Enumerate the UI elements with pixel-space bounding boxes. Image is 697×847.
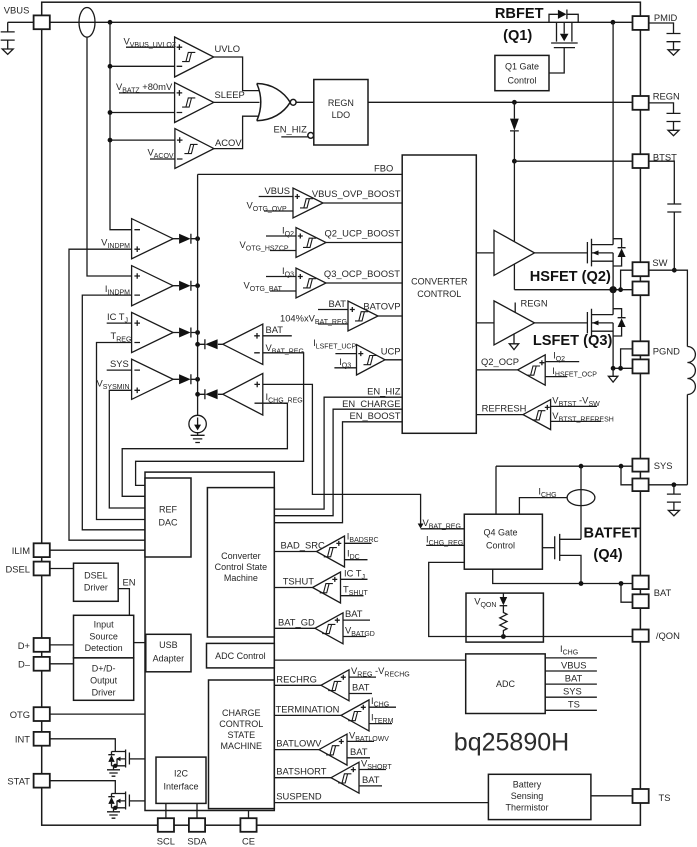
wire /QON net	[429, 562, 633, 636]
block ADC	[466, 654, 546, 714]
svg-text:BAT: BAT	[266, 324, 284, 335]
op-amp thermal IC TJ / T_REG	[107, 311, 173, 353]
block Battery Sensing Thermistor	[488, 774, 591, 819]
wire PGND node	[613, 367, 632, 369]
pin SYS 1	[632, 459, 648, 472]
svg-text:EN_CHARGE: EN_CHARGE	[342, 398, 400, 409]
transistor Q1 RBFET	[549, 10, 578, 74]
svg-text:Control State: Control State	[215, 562, 268, 572]
svg-text:D+/D-: D+/D-	[92, 664, 116, 674]
wire LSFET gate	[535, 322, 588, 324]
comparator RECHRG	[274, 665, 409, 701]
svg-text:STATE: STATE	[227, 730, 255, 740]
svg-text:Q2_UCP_BOOST: Q2_UCP_BOOST	[324, 227, 400, 238]
resistor R1 QON pulldown	[500, 606, 507, 637]
capacitor BTST bootstrap cap	[649, 161, 682, 270]
capacitor REGN external cap	[649, 103, 681, 130]
wire VBUS input net	[8, 21, 633, 23]
svg-text:REF: REF	[159, 505, 178, 515]
comparator BATSHORT	[274, 758, 392, 794]
pin BAT 2	[633, 594, 649, 608]
wire I_CHG_REG- reference wrap to REF DAC	[122, 403, 287, 496]
svg-text:BATLOWV: BATLOWV	[276, 738, 322, 749]
wire D+ input	[50, 644, 74, 646]
wire I_CHG sense into Q4 Gate Control	[519, 498, 567, 515]
svg-text:Output: Output	[90, 676, 118, 686]
block D+/D- Output Driver	[74, 658, 134, 700]
svg-text:EN: EN	[123, 577, 136, 588]
pin STAT	[34, 774, 50, 788]
svg-text:VBUS: VBUS	[264, 185, 290, 196]
svg-text:CONTROL: CONTROL	[219, 719, 263, 729]
svg-text:SLEEP: SLEEP	[215, 89, 245, 100]
svg-text:CONTROL: CONTROL	[417, 289, 461, 299]
comparator REFRESH	[476, 394, 614, 429]
transistor INT open-drain FET	[107, 750, 145, 777]
svg-text:SDA: SDA	[187, 836, 207, 847]
svg-text:BAD_SRC: BAD_SRC	[281, 540, 326, 551]
svg-text:Thermistor: Thermistor	[505, 803, 548, 813]
gate NOR U1	[257, 84, 296, 121]
svg-text:D+: D+	[18, 640, 31, 651]
wire SYS pin2 bracket	[621, 466, 632, 485]
svg-text:REGN: REGN	[521, 298, 548, 309]
svg-text:EN_BOOST: EN_BOOST	[349, 410, 400, 421]
Q1 bypass body diode	[549, 14, 578, 22]
svg-text:REGN: REGN	[328, 98, 354, 108]
svg-text:SYS: SYS	[563, 686, 582, 697]
wire NOR output	[296, 101, 314, 103]
svg-text:Q1 Gate: Q1 Gate	[505, 62, 539, 72]
wire HSFET gate	[535, 252, 588, 254]
capacitor SYS external cap	[667, 485, 681, 511]
svg-text:BAT: BAT	[352, 682, 370, 693]
svg-text:BATFET: BATFET	[584, 526, 641, 542]
wire ADC control to ADC	[274, 659, 465, 661]
diode D1 op1 output	[173, 234, 198, 244]
svg-text:CE: CE	[242, 836, 255, 847]
wire thermistor to TS pin	[591, 795, 633, 797]
block Q4 Gate Control	[464, 514, 542, 569]
label REGN supply stub on LSFET driver	[514, 303, 516, 313]
current source I1	[189, 415, 206, 432]
ground below current source	[191, 433, 205, 443]
diode D4 op4 output	[173, 374, 198, 384]
svg-text:OTG: OTG	[10, 709, 30, 720]
wire SYS pin2 to external cap and inductor	[649, 484, 688, 486]
wire T_REG reference from REF DAC	[97, 343, 146, 520]
svg-text:TS: TS	[568, 699, 580, 710]
svg-text:Converter: Converter	[221, 551, 261, 561]
comparator Q3_OCP_BOOST	[244, 265, 403, 298]
diode V_QON	[502, 593, 504, 597]
wire ADC output BAT	[545, 683, 597, 685]
pin PGND 1	[633, 341, 649, 355]
svg-text:Adapter: Adapter	[153, 654, 185, 664]
svg-text:CHARGE: CHARGE	[222, 708, 261, 718]
svg-text:DAC: DAC	[158, 518, 178, 528]
current sense ellipse I_CHG	[567, 490, 595, 506]
svg-text:UVLO: UVLO	[215, 43, 241, 54]
transistor Q2 HSFET	[587, 22, 625, 289]
svg-text:MACHINE: MACHINE	[221, 741, 263, 751]
svg-text:Q2_OCP: Q2_OCP	[481, 356, 519, 367]
comparator BATOVP	[280, 298, 402, 331]
wire V_INDPM+ reference from REF DAC	[69, 249, 145, 540]
pin TS	[633, 789, 649, 803]
svg-text:SYS: SYS	[654, 460, 673, 471]
svg-text:BAT: BAT	[350, 746, 368, 757]
transistor Q3 LSFET	[587, 290, 625, 369]
block USB Adapter	[146, 634, 191, 672]
block ADC Control	[207, 643, 275, 668]
svg-text:D–: D–	[18, 659, 31, 670]
svg-text:SUSPEND: SUSPEND	[276, 791, 322, 802]
block Input Source Detection	[74, 615, 134, 658]
ground stub below LSFET driver	[513, 334, 515, 344]
inductor L1 external	[648, 270, 687, 346]
svg-text:(Q4): (Q4)	[593, 547, 622, 563]
svg-text:EN_HIZ: EN_HIZ	[367, 386, 401, 397]
wire ADC output TS	[545, 709, 597, 711]
svg-text:(Q1): (Q1)	[503, 28, 532, 44]
svg-text:HSFET (Q2): HSFET (Q2)	[530, 269, 611, 285]
block REF DAC	[145, 478, 191, 557]
svg-text:Control: Control	[507, 76, 536, 86]
wire SCL to I2C	[165, 803, 167, 818]
op-amp I_INDPM	[105, 266, 173, 306]
Q1 FET body	[557, 22, 572, 41]
op-amp SYS / V_SYSMIN	[97, 358, 174, 400]
wire SW node	[514, 289, 632, 291]
svg-text:Q4 Gate: Q4 Gate	[483, 528, 517, 538]
comparator TERMINATION	[274, 695, 396, 731]
pin BAT 1	[633, 576, 649, 590]
pin SW 2	[633, 282, 649, 296]
svg-text:TSHUT: TSHUT	[283, 576, 315, 587]
transistor Q4 BATFET	[542, 534, 581, 584]
wire HSFET driver low rail to SW	[513, 264, 515, 290]
svg-text:FBO: FBO	[374, 162, 393, 173]
wire ADC output VBUS	[545, 670, 597, 672]
block I2C Interface	[156, 757, 206, 803]
svg-text:Machine: Machine	[224, 573, 258, 583]
wire SYS to Q4 Gate Control	[495, 466, 497, 514]
wire SUSPEND to thermistor block	[274, 802, 488, 804]
current sense ellipse on VBUS	[79, 7, 95, 37]
wire REGN output to pin	[368, 101, 633, 103]
wire ISD to USB Adapter	[134, 642, 146, 644]
ground PGND symbol	[612, 368, 614, 376]
svg-text:BAT: BAT	[654, 587, 672, 598]
svg-text:Source: Source	[89, 632, 118, 642]
pin OTG	[34, 707, 50, 721]
wire VBUS divider vertical x110	[110, 22, 175, 229]
wire SW pin1 bracket	[621, 270, 633, 290]
pin INT	[34, 732, 50, 746]
wire ILIM to REF DAC	[50, 549, 145, 551]
pin D+	[34, 638, 50, 652]
wire BAT pin2 bracket	[621, 584, 633, 603]
node VBUS junction	[108, 20, 113, 25]
svg-text:ADC Control: ADC Control	[215, 651, 266, 661]
wire ADC output I_CHG	[545, 657, 597, 659]
svg-text:TS: TS	[659, 792, 671, 803]
op-amp V_INDPM	[101, 219, 173, 259]
svg-text:CONVERTER: CONVERTER	[411, 277, 468, 287]
svg-text:Battery: Battery	[513, 780, 542, 790]
svg-text:SYS: SYS	[110, 358, 129, 369]
svg-text:VBUS: VBUS	[561, 659, 587, 670]
svg-text:BATSHORT: BATSHORT	[276, 766, 326, 777]
pin SYS 2	[632, 479, 648, 492]
svg-text:BAT: BAT	[328, 298, 346, 309]
wire ADC output SYS	[545, 696, 597, 698]
svg-text:Driver: Driver	[84, 583, 108, 593]
pin CE	[240, 818, 256, 832]
block CONVERTER CONTROL	[402, 155, 476, 433]
svg-text:EN_HIZ: EN_HIZ	[274, 124, 308, 135]
wire VBUS sense line to I_INDPM	[87, 37, 132, 276]
svg-text:RBFET: RBFET	[495, 6, 544, 22]
pin DSEL	[34, 562, 50, 576]
wire V_SYSMIN reference from REF DAC	[109, 390, 145, 508]
block digital core box	[145, 472, 274, 810]
svg-text:Driver: Driver	[92, 688, 116, 698]
block Q1 Gate Control	[495, 55, 549, 90]
svg-text:USB: USB	[159, 640, 178, 650]
wire ACOV output to NOR	[214, 116, 259, 148]
block V_QON pulldown	[466, 593, 543, 642]
wire OTG input	[50, 713, 145, 715]
pin BTST	[633, 154, 649, 168]
wire BAT node	[493, 569, 633, 583]
pin /QON	[633, 630, 649, 642]
diode D5 opB output	[198, 339, 223, 349]
comparator TSHUT	[274, 567, 368, 603]
wire BTST net	[514, 160, 632, 162]
svg-text:VBUS_OVP_BOOST: VBUS_OVP_BOOST	[312, 188, 401, 199]
comparator UVLO	[175, 37, 240, 77]
wire EN_BOOST to state machine	[274, 422, 402, 523]
svg-text:BAT: BAT	[565, 672, 583, 683]
wire SLEEP output to NOR	[214, 101, 260, 103]
svg-text:DSEL: DSEL	[84, 571, 108, 581]
transistor STAT open-drain FET	[107, 792, 145, 819]
svg-text:Control: Control	[486, 541, 515, 551]
wire BATFET drain sense line	[580, 466, 582, 539]
op-amp I_CHG_REG	[223, 373, 303, 415]
capacitor PMID external cap	[649, 23, 681, 50]
pin D-	[34, 657, 50, 671]
comparator BAT_GD	[274, 608, 375, 644]
wire INT pull-down drain	[50, 739, 116, 752]
wire CE to digital core	[248, 811, 250, 819]
svg-text:VBUS: VBUS	[4, 5, 30, 16]
diode REGN to BTST	[513, 102, 515, 118]
diode D2 op2 output	[173, 281, 198, 291]
wire EN_HIZ to state machine	[274, 397, 402, 509]
wire diode-OR bus	[197, 174, 199, 415]
pin SW 1	[633, 262, 649, 276]
diode D6 opC output	[198, 389, 223, 399]
wire SYS node	[496, 465, 632, 467]
svg-text:ADC: ADC	[496, 679, 516, 689]
comparator VBUS_OVP_BOOST	[247, 185, 403, 218]
pin VBUS	[34, 15, 50, 29]
wire STAT pull-down drain	[50, 781, 116, 794]
wire I_INDPM- reference from REF DAC	[82, 295, 145, 530]
comparator UCP	[313, 337, 402, 375]
svg-text:BATOVP: BATOVP	[363, 300, 400, 311]
svg-text:Input: Input	[94, 620, 115, 630]
svg-text:BAT_GD: BAT_GD	[278, 616, 315, 627]
svg-text:BAT: BAT	[345, 608, 363, 619]
comparator ACOV	[175, 129, 242, 169]
svg-text:PMID: PMID	[654, 12, 678, 23]
svg-text:INT: INT	[15, 734, 30, 745]
svg-text:REGN: REGN	[653, 91, 680, 102]
wire EN_CHARGE to state machine	[274, 409, 402, 516]
diode D3 op3 output	[173, 328, 198, 338]
comparator Q2_OCP	[476, 349, 597, 385]
svg-text:DSEL: DSEL	[6, 563, 31, 574]
svg-text:bq25890H: bq25890H	[454, 729, 569, 757]
comparator SLEEP	[175, 83, 245, 123]
wire D- input	[50, 663, 74, 665]
block REGN LDO	[314, 80, 368, 146]
wire BTST to HSFET driver supply	[513, 161, 515, 241]
wire FBO	[198, 173, 403, 175]
svg-text:RECHRG: RECHRG	[276, 673, 317, 684]
svg-text:ILIM: ILIM	[12, 545, 30, 556]
comparator BAD_SRC	[274, 530, 378, 567]
driver LSFET gate driver	[494, 301, 535, 345]
svg-text:Detection: Detection	[85, 643, 123, 653]
svg-text:LSFET (Q3): LSFET (Q3)	[533, 333, 613, 349]
wire EN from DSEL Driver to Input Source Detection	[118, 589, 129, 616]
svg-text:UCP: UCP	[381, 345, 401, 356]
pin SCL	[158, 818, 174, 832]
comparator BATLOWV	[274, 729, 389, 765]
pin SDA	[189, 818, 205, 832]
svg-text:STAT: STAT	[7, 776, 30, 787]
svg-text:Q3_OCP_BOOST: Q3_OCP_BOOST	[324, 268, 400, 279]
wire UVLO output to NOR	[214, 57, 259, 91]
svg-text:I2C: I2C	[174, 769, 189, 779]
wire V_BAT_REG reference wrap to REF DAC	[136, 353, 304, 486]
capacitor VBUS input cap to ground	[1, 22, 15, 49]
svg-text:Sensing: Sensing	[511, 791, 544, 801]
svg-text:SW: SW	[652, 257, 667, 268]
svg-text:ACOV: ACOV	[215, 137, 242, 148]
block Converter Control State Machine	[207, 488, 274, 637]
svg-text:Interface: Interface	[163, 782, 198, 792]
svg-text:SCL: SCL	[157, 836, 175, 847]
op-amp BAT / V_BAT_REG	[223, 324, 304, 365]
svg-text:PGND: PGND	[653, 345, 680, 356]
pin REGN	[633, 96, 649, 110]
svg-text:BAT: BAT	[362, 774, 380, 785]
block DSEL Driver	[74, 563, 119, 601]
block Charge Control State Machine	[209, 680, 275, 809]
wire I_CHG_REG+ sense to Q4 V_BAT_REG arrow	[263, 384, 421, 524]
svg-text:LDO: LDO	[332, 110, 351, 120]
pin ILIM	[34, 543, 50, 557]
svg-text:REFRESH: REFRESH	[482, 402, 527, 413]
svg-text:BTST: BTST	[653, 152, 677, 163]
comparator Q2_UCP_BOOST	[240, 225, 403, 258]
svg-text:TERMINATION: TERMINATION	[276, 703, 340, 714]
svg-text:/QON: /QON	[656, 630, 680, 641]
wire PGND pin1 bracket	[621, 349, 633, 368]
driver HSFET gate driver	[494, 230, 535, 275]
wire SDA to I2C	[196, 803, 198, 818]
wire DSEL to DSEL Driver	[50, 568, 74, 570]
pin PGND 2	[633, 359, 649, 373]
pin PMID	[633, 16, 649, 30]
